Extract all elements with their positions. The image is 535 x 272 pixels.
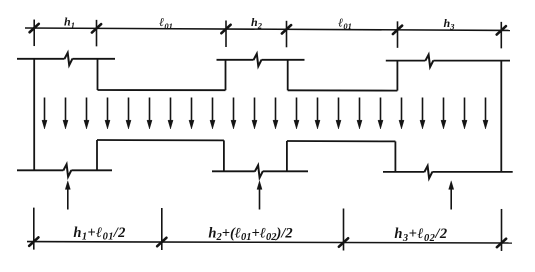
svg-text:h3​+ℓ02​/2: h3​+ℓ02​/2 <box>394 226 447 244</box>
svg-text:h1​+ℓ01​/2: h1​+ℓ01​/2 <box>73 225 125 243</box>
